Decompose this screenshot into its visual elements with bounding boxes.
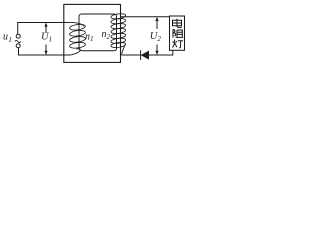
U2 dimension arrow up bbox=[156, 19, 158, 29]
transformer outer box bbox=[64, 4, 121, 62]
secondary coil bottom connector bbox=[122, 45, 125, 55]
U1 dimension arrow down bbox=[45, 45, 47, 54]
secondary coil n2 loops bbox=[111, 13, 126, 48]
primary coil n1 loops bbox=[69, 24, 85, 49]
chinese char 电 (load label row 1) bbox=[173, 19, 182, 28]
ac source tilde bbox=[15, 40, 21, 42]
primary coil top connector bbox=[70, 22, 85, 26]
ac source terminal circle bottom bbox=[16, 44, 20, 48]
wire secondary top to load bbox=[121, 16, 170, 18]
U1 dimension arrow up bbox=[45, 25, 47, 34]
wire diode to secondary coil bbox=[122, 54, 141, 56]
primary coil bottom connector bbox=[71, 49, 81, 55]
ac source terminal circle top bbox=[16, 34, 20, 38]
wire load bottom bbox=[149, 50, 173, 55]
load box bbox=[170, 16, 185, 50]
chinese char 灯 (load label row 3) bbox=[172, 40, 183, 48]
chinese char 阻 (load label row 2) bbox=[173, 29, 183, 37]
wire bottom-left from source to primary coil bbox=[19, 48, 72, 55]
wire top-left from source to primary coil bbox=[18, 23, 70, 35]
U2 dimension arrow down bbox=[156, 45, 158, 54]
transformer core inner rect bbox=[79, 14, 117, 51]
diode D bbox=[140, 50, 142, 60]
